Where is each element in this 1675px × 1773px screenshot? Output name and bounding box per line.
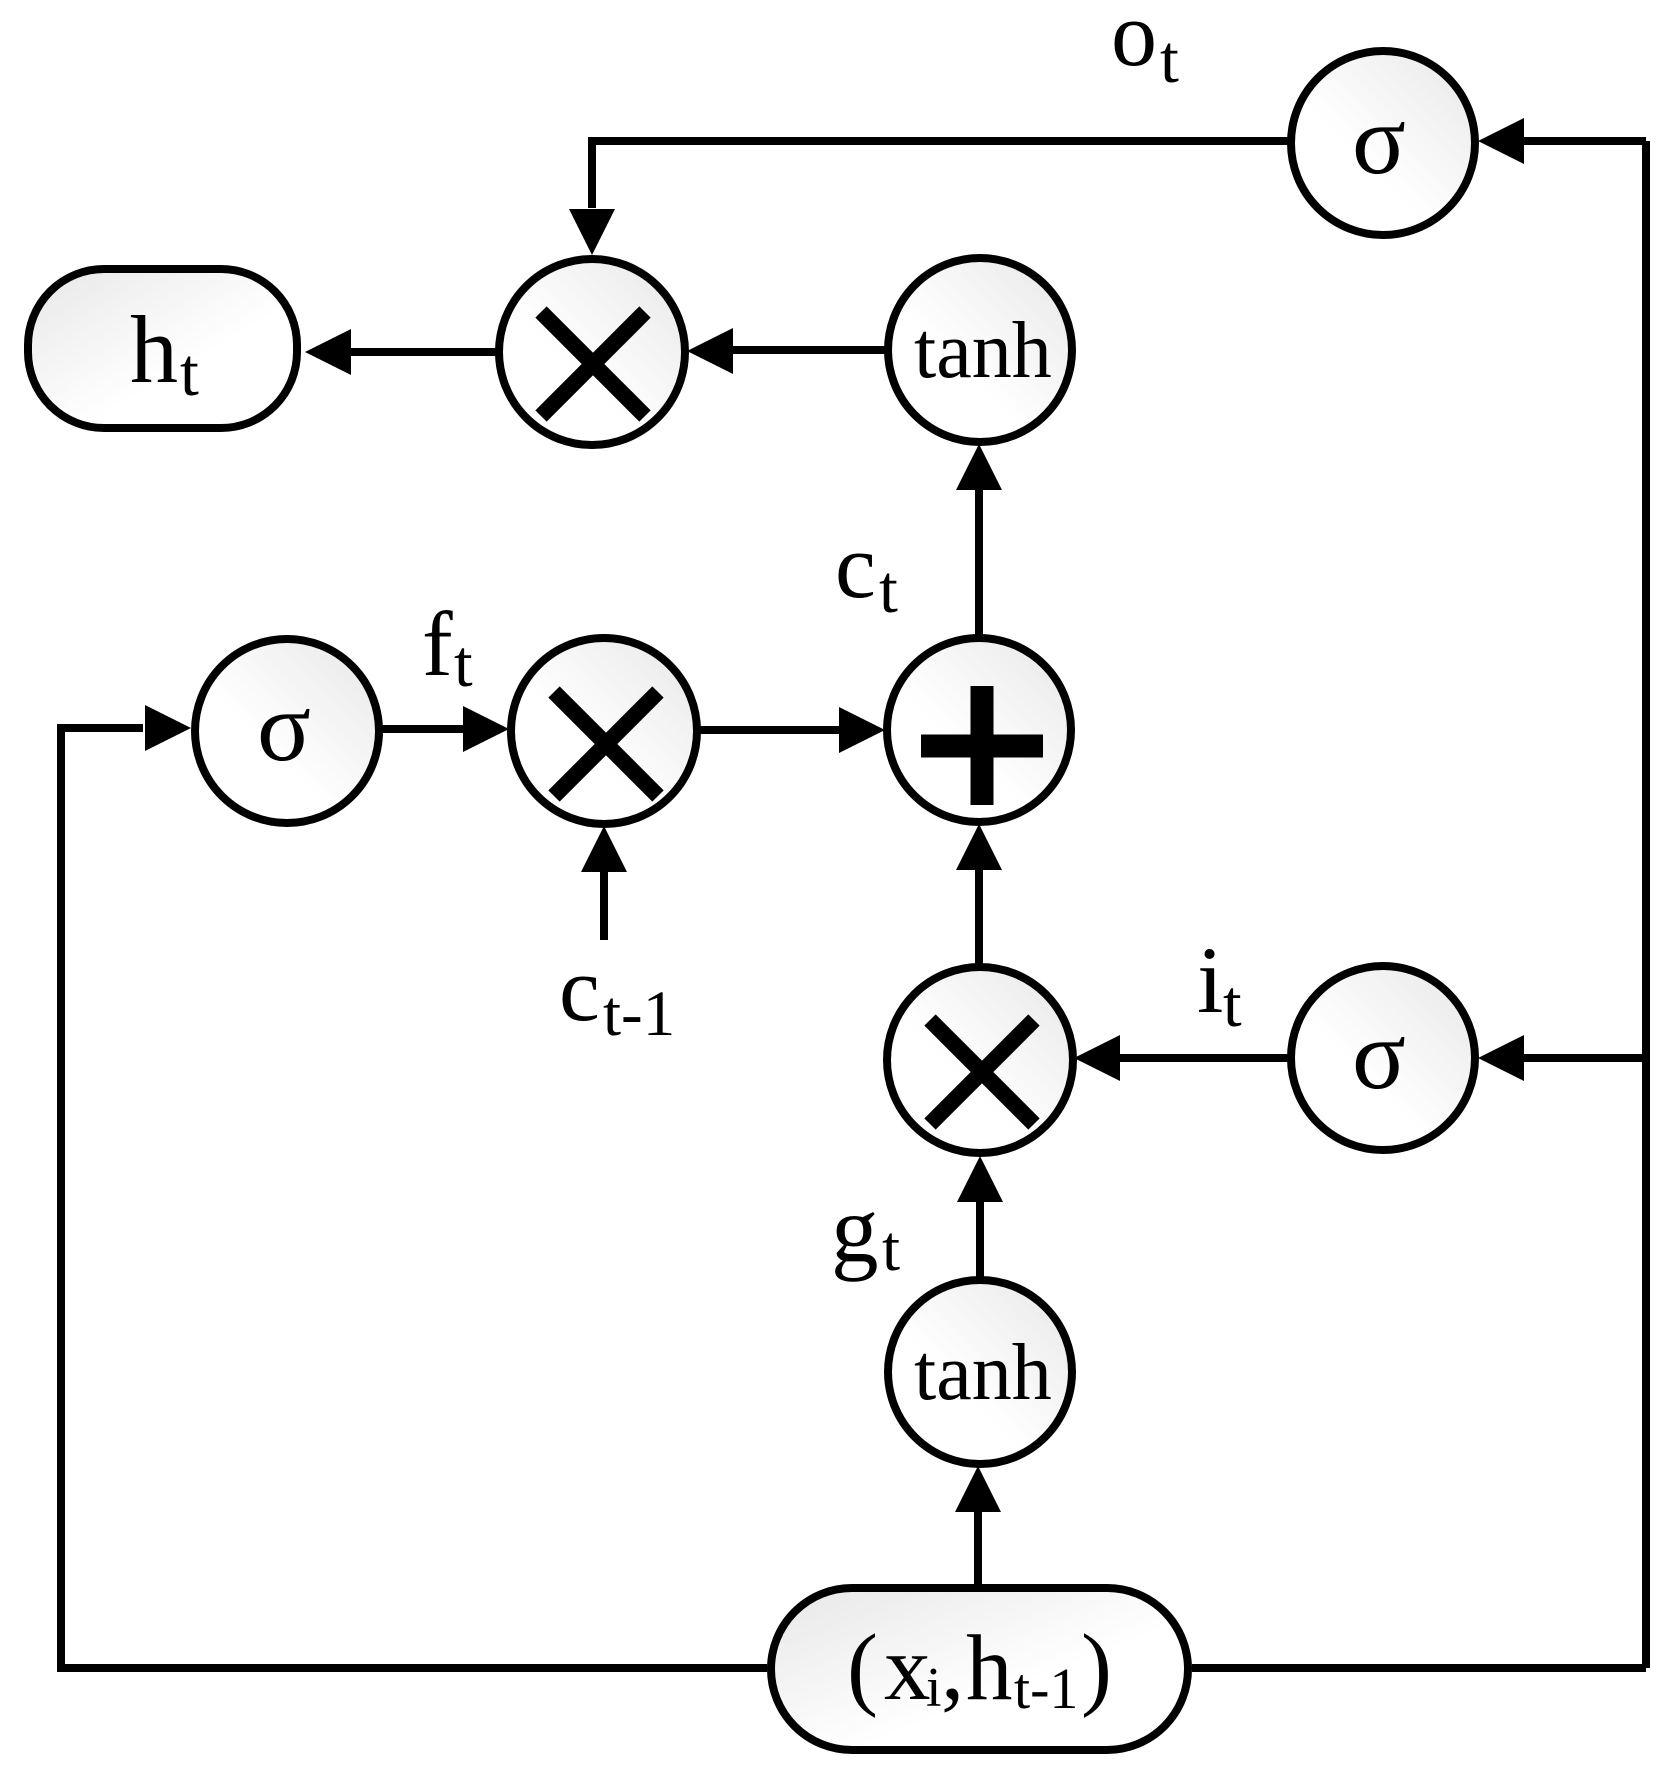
label (x_i,h_t-1) — [847, 1616, 1112, 1721]
wire: bottom-right from input box to right bus — [1192, 1664, 1646, 1672]
arrowhead into h_t right side — [305, 329, 351, 375]
svg-text:c: c — [559, 938, 600, 1040]
node input box (x_i,h_t-1) — [771, 1588, 1188, 1750]
wire: right vertical bus — [1642, 141, 1650, 1668]
label o_t — [1111, 0, 1179, 97]
arrowhead into mult-i bottom — [957, 1156, 1003, 1202]
node mult-i (input product) — [887, 967, 1073, 1153]
svg-text:c: c — [835, 515, 876, 617]
svg-text:σ: σ — [257, 671, 311, 782]
arrowhead into sigma-i right side — [1478, 1035, 1524, 1081]
svg-text:tanh: tanh — [914, 307, 1052, 395]
op-amp sigma-i (input gate sigmoid), right — [1291, 966, 1475, 1150]
wire: input box up to tanh-g — [974, 1510, 982, 1584]
svg-text:h: h — [966, 1617, 1013, 1720]
label f_t — [422, 593, 473, 701]
svg-text:t: t — [180, 334, 199, 410]
svg-text:i: i — [1197, 927, 1223, 1033]
arrowhead into mult-h right side — [687, 328, 733, 374]
node mult-h (elementwise product for h_t), top — [499, 259, 685, 445]
plus mark — [921, 686, 1043, 805]
node plus (cell state sum) — [887, 638, 1071, 822]
wire: sigma-f to mult-f — [379, 725, 464, 733]
arrowhead into tanh-top bottom — [956, 444, 1002, 490]
svg-text:σ: σ — [1352, 84, 1406, 195]
op-amp sigma-o (output gate sigmoid), top right — [1291, 51, 1475, 235]
svg-text:h: h — [130, 296, 178, 403]
wire: tanh-top to mult-h — [733, 346, 888, 354]
wire: top-right feed into sigma-o — [1524, 137, 1646, 145]
svg-text:t: t — [1223, 967, 1242, 1041]
svg-text:f: f — [422, 593, 453, 695]
label i_t — [1197, 927, 1242, 1041]
label c_t-1 — [559, 938, 675, 1050]
svg-text:t-1: t-1 — [1014, 1656, 1078, 1721]
svg-text:o: o — [1111, 0, 1157, 85]
svg-text:tanh: tanh — [914, 1329, 1052, 1417]
node tanh-g circle — [888, 1280, 1072, 1464]
svg-text:): ) — [1081, 1616, 1112, 1719]
label h_t — [130, 296, 199, 410]
wire: tanh-g up to mult-i — [976, 1202, 984, 1278]
label g_t — [831, 1176, 900, 1285]
op-amp sigma-f (forget gate sigmoid), left — [195, 639, 379, 823]
X mark in mult-f — [554, 692, 658, 796]
svg-text:t: t — [454, 627, 473, 701]
arrowhead into mult-f left side — [463, 706, 509, 752]
arrowhead into sigma-f left side — [145, 705, 191, 751]
svg-text:(: ( — [847, 1616, 878, 1719]
X mark in mult-i — [930, 1020, 1034, 1124]
svg-text:g: g — [831, 1176, 879, 1282]
svg-text:,: , — [941, 1616, 964, 1719]
arrowhead into plus bottom — [956, 824, 1002, 870]
wire: bottom-left from input box to left bus and up to sigma-f — [61, 728, 767, 1668]
svg-text:t: t — [882, 1213, 900, 1285]
svg-text:σ: σ — [1352, 999, 1406, 1110]
label c_t — [835, 515, 898, 627]
wire: c_t-1 stub up into mult-f — [600, 872, 608, 940]
arrowhead into mult-f bottom — [581, 826, 627, 872]
arrowhead into tanh-g bottom — [955, 1466, 1001, 1512]
arrowhead into sigma-o right side — [1478, 118, 1524, 164]
wire: c_t line from plus up to tanh-top — [975, 490, 983, 638]
wire: mult-h to h_t — [349, 348, 499, 356]
node h_t output box — [28, 269, 297, 428]
svg-text:t: t — [879, 551, 898, 627]
svg-text:x: x — [884, 1617, 931, 1720]
arrowhead into mult-h top — [569, 209, 615, 255]
wire: mult-f to plus — [697, 726, 839, 734]
arrowhead into plus left side — [839, 707, 885, 753]
svg-text:i: i — [926, 1657, 942, 1719]
wire: sigma-i to mult-i — [1120, 1054, 1289, 1062]
svg-text:t: t — [1160, 21, 1179, 97]
wire: branch from right bus into sigma-i — [1522, 1054, 1646, 1062]
wire: o_t line from sigma-o left, over and down to mult-h — [592, 141, 1291, 208]
node mult-f (forget product) — [511, 638, 697, 824]
svg-text:t-1: t-1 — [603, 978, 675, 1050]
X mark in mult-h — [541, 312, 645, 416]
node tanh-top circle — [888, 258, 1072, 442]
wire: mult-i up to plus — [975, 870, 983, 965]
arrowhead into mult-i right side — [1074, 1035, 1120, 1081]
